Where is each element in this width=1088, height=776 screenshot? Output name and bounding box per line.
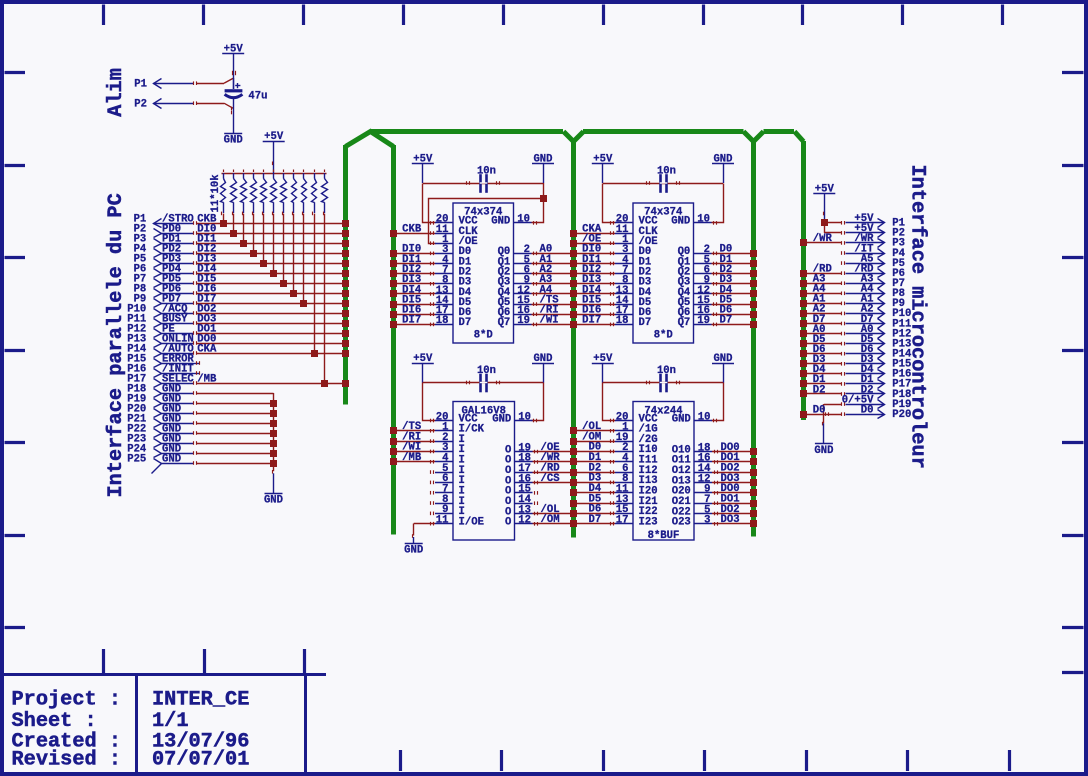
svg-text:8*BUF: 8*BUF <box>648 530 680 542</box>
svg-text:GND: GND <box>492 413 511 425</box>
svg-text:07/07/01: 07/07/01 <box>152 749 249 772</box>
svg-text:DI7: DI7 <box>582 315 601 327</box>
svg-text:8*D: 8*D <box>474 330 493 342</box>
svg-text:GND: GND <box>224 135 243 147</box>
svg-text:19: 19 <box>697 315 710 327</box>
svg-text:10: 10 <box>698 411 711 423</box>
svg-text:DO3: DO3 <box>721 514 740 526</box>
svg-text:8*D: 8*D <box>654 330 673 342</box>
svg-text:GND: GND <box>491 216 510 228</box>
svg-text:10n: 10n <box>477 166 496 178</box>
svg-text:Revised :: Revised : <box>12 749 122 772</box>
svg-text:10n: 10n <box>657 365 676 377</box>
svg-text:O23: O23 <box>672 517 691 529</box>
svg-text:D7: D7 <box>639 317 652 329</box>
svg-text:10n: 10n <box>477 365 496 377</box>
svg-text:I23: I23 <box>639 516 658 528</box>
svg-text:GND: GND <box>672 413 691 425</box>
svg-text:17: 17 <box>616 514 629 526</box>
svg-text:/OM: /OM <box>541 514 560 526</box>
svg-text:D7: D7 <box>720 315 733 327</box>
svg-text:11: 11 <box>436 514 449 526</box>
svg-text:18: 18 <box>616 315 629 327</box>
svg-text:CKB: CKB <box>402 223 422 235</box>
svg-text:I/OE: I/OE <box>459 516 484 528</box>
svg-text:P1: P1 <box>134 79 147 91</box>
svg-text:19: 19 <box>517 315 530 327</box>
svg-text:CKA: CKA <box>197 343 217 355</box>
svg-text:18: 18 <box>436 315 449 327</box>
svg-text:10: 10 <box>517 214 530 226</box>
svg-text:D0: D0 <box>813 404 826 416</box>
svg-text:O: O <box>505 517 511 529</box>
svg-text:/CS: /CS <box>541 473 561 485</box>
svg-text:/MB: /MB <box>197 373 217 385</box>
svg-text:GND: GND <box>404 545 423 557</box>
svg-text:P25: P25 <box>127 453 146 465</box>
svg-text:INTER_CE: INTER_CE <box>152 689 249 712</box>
svg-text:GND: GND <box>162 453 181 465</box>
svg-text:D7: D7 <box>588 514 601 526</box>
svg-text:D7: D7 <box>459 317 472 329</box>
svg-text:10: 10 <box>697 214 710 226</box>
svg-text:GND: GND <box>814 445 833 457</box>
svg-text:DI7: DI7 <box>402 315 421 327</box>
svg-text:47u: 47u <box>248 91 267 103</box>
svg-text:Alim: Alim <box>105 68 128 117</box>
svg-text:Interface parallele du PC: Interface parallele du PC <box>105 193 128 497</box>
svg-text:/WI: /WI <box>540 315 559 327</box>
svg-text:D0: D0 <box>861 404 874 416</box>
svg-text:GND: GND <box>264 494 283 506</box>
svg-text:/WR: /WR <box>813 233 833 245</box>
svg-text:Project :: Project : <box>12 689 122 712</box>
svg-text:D2: D2 <box>813 384 826 396</box>
svg-text:Q7: Q7 <box>498 317 511 329</box>
svg-text:P2: P2 <box>134 99 147 111</box>
svg-text:3: 3 <box>704 515 710 527</box>
svg-text:/MB: /MB <box>402 452 422 464</box>
svg-text:GND: GND <box>671 216 690 228</box>
svg-text:Q7: Q7 <box>678 317 691 329</box>
svg-text:P20: P20 <box>892 409 911 421</box>
svg-text:12: 12 <box>518 515 531 527</box>
svg-text:10n: 10n <box>657 166 676 178</box>
svg-text:10: 10 <box>518 411 531 423</box>
